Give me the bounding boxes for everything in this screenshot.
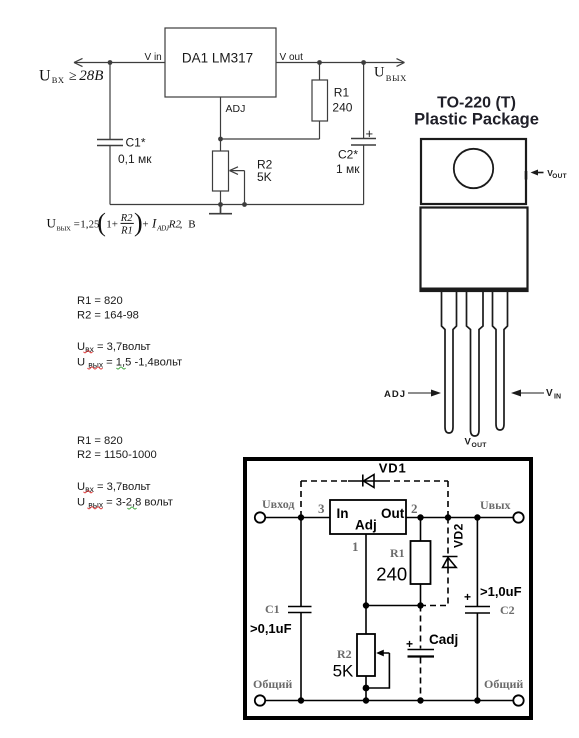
svg-text:C2: C2 (500, 603, 515, 617)
squiggle red vx1 (84, 351, 93, 353)
node dot out2 (361, 60, 366, 65)
label R2 bottom (337, 647, 352, 661)
svg-text:R1: R1 (334, 86, 350, 100)
svg-text:In: In (337, 506, 349, 521)
svg-text:,: , (180, 219, 183, 231)
junction rail1 (298, 697, 304, 703)
label C2* (338, 148, 358, 162)
svg-text:TO-220 (T): TO-220 (T) (437, 95, 516, 112)
wire (365, 676, 367, 701)
svg-text:ВЫХ: ВЫХ (56, 226, 71, 233)
wire (109, 146, 111, 205)
label Cadj (429, 632, 458, 647)
wire dashed vd1 left (300, 481, 302, 518)
svg-text:Uвх = 3,7вольт: Uвх = 3,7вольт (77, 481, 151, 494)
wire (109, 63, 111, 140)
svg-text:DA1 LM317: DA1 LM317 (182, 51, 253, 66)
squiggle green 15 (117, 367, 126, 369)
resistor R1 (411, 541, 431, 584)
svg-text:IN: IN (554, 394, 561, 401)
svg-text:ВЫХ: ВЫХ (386, 73, 407, 83)
capacitor C1 (288, 607, 312, 613)
svg-text:R1: R1 (120, 226, 133, 237)
wire (221, 138, 320, 140)
label Plastic Package (414, 111, 539, 129)
op-amp U1 (165, 28, 276, 97)
junction rail3 (417, 697, 423, 703)
svg-text:=: = (74, 219, 80, 231)
ground (209, 205, 232, 214)
svg-text:1,: 1, (80, 219, 89, 231)
ground rail (266, 700, 514, 702)
label Adj (355, 518, 377, 533)
wire (266, 517, 331, 519)
label V in (145, 52, 162, 63)
svg-text:ADJ: ADJ (384, 389, 406, 400)
svg-text:>0,1uF: >0,1uF (250, 621, 292, 636)
wire (220, 97, 222, 151)
junction wiper (363, 685, 370, 692)
label 240 (332, 101, 352, 115)
wire (74, 62, 165, 64)
svg-text:ADJ: ADJ (226, 103, 246, 115)
node dot adj (218, 137, 223, 142)
ground terminal right (513, 695, 523, 705)
svg-text:R2: R2 (337, 647, 352, 661)
resistor R1 (312, 80, 328, 121)
svg-text:5K: 5K (333, 662, 354, 681)
TO220 body bottom band (421, 288, 528, 292)
label Uvyh (480, 498, 511, 512)
svg-text:R1 = 820: R1 = 820 (77, 435, 123, 447)
label In (337, 506, 349, 521)
svg-text:R1: R1 (390, 546, 405, 560)
wire dashed vd2 bottom (423, 568, 448, 606)
junction in (298, 514, 304, 520)
label R2 (257, 158, 273, 172)
label Uvyx block1 (77, 357, 182, 370)
svg-text:R1 = 820: R1 = 820 (77, 295, 123, 307)
svg-text:240: 240 (332, 101, 352, 115)
svg-text:В: В (188, 219, 195, 231)
wire (300, 613, 302, 701)
svg-text:OUT: OUT (472, 442, 488, 449)
node dot rail2 (242, 202, 247, 207)
junction out3 (474, 514, 480, 520)
svg-text:0,1 мк: 0,1 мк (118, 152, 152, 166)
TO220 pin1 (442, 292, 457, 433)
wire (319, 121, 321, 139)
label Uvx block1 (77, 341, 151, 354)
label TO-220 (T) (437, 95, 516, 112)
label Uvhod (262, 497, 294, 511)
svg-text:U: U (374, 65, 385, 81)
svg-text:U вых = 3-2,8 вольт: U вых = 3-2,8 вольт (77, 497, 173, 510)
label pin 3 (318, 501, 325, 516)
label Obshiy left (253, 677, 292, 691)
wire c1 (300, 518, 302, 607)
squiggle red vx2 (84, 491, 93, 493)
fraction bar (121, 222, 134, 224)
svg-text:C2*: C2* (338, 148, 358, 162)
label C2 bottom (500, 603, 515, 617)
V_IN arrow (511, 390, 544, 397)
frame (245, 459, 531, 718)
svg-text:OUT: OUT (552, 173, 567, 180)
wire (230, 171, 245, 205)
diode VD2 (443, 557, 458, 568)
svg-text:Общий: Общий (484, 677, 523, 691)
svg-text:R2 = 1150-1000: R2 = 1150-1000 (77, 449, 157, 461)
node B (230, 167, 239, 175)
junction rail2 (363, 697, 369, 703)
svg-text:Uвых: Uвых (480, 498, 511, 512)
wire (276, 62, 404, 64)
wire dashed vd1 top right (384, 480, 448, 482)
diode VD1 (348, 475, 384, 488)
wire (110, 204, 364, 206)
junction adj1 (363, 602, 369, 608)
svg-text:Cadj: Cadj (429, 632, 458, 647)
wire (366, 605, 421, 607)
svg-text:1 мк: 1 мк (336, 162, 360, 176)
svg-text:Adj: Adj (355, 518, 377, 533)
TO220 pin2 (467, 292, 484, 436)
wire (319, 63, 321, 81)
svg-text:VD1: VD1 (379, 461, 407, 476)
label 0,1 mk (118, 152, 152, 166)
svg-text:V: V (546, 388, 553, 399)
node dot input (108, 60, 113, 65)
svg-text:+: + (142, 219, 148, 231)
svg-text:≥: ≥ (69, 69, 77, 84)
output terminal (513, 512, 523, 522)
svg-text:): ) (134, 208, 143, 237)
svg-text:Общий: Общий (253, 677, 292, 691)
label V out (280, 52, 304, 63)
label V_IN (546, 388, 561, 401)
svg-text:(: ( (97, 208, 106, 237)
label DA1 LM317 (182, 51, 253, 66)
wire dashed vd1 right (447, 481, 449, 518)
wire (420, 584, 422, 606)
resistor R2 (357, 634, 375, 676)
squiggle red vyx2 (88, 507, 103, 509)
label plus C2 bottom (464, 590, 471, 604)
svg-text:28В: 28В (79, 68, 103, 84)
label Out (381, 506, 405, 521)
input terminal (255, 512, 265, 522)
svg-text:+: + (406, 637, 413, 651)
V_OUT top arrow (525, 170, 544, 180)
svg-text:240: 240 (376, 564, 407, 585)
label R2 = 164-98 (77, 310, 139, 322)
svg-text:C1*: C1* (126, 136, 146, 150)
label 240 bottom (376, 564, 407, 585)
label R2 = 1150-1000 (77, 449, 157, 461)
label pin 2 (411, 501, 418, 516)
svg-text:U: U (47, 216, 57, 231)
svg-text:1+: 1+ (106, 219, 118, 231)
wire (220, 191, 222, 205)
TO220 hole (454, 149, 493, 188)
wire (476, 614, 478, 701)
svg-text:C1: C1 (265, 602, 280, 616)
R2 wiper (366, 650, 389, 688)
ADJ arrow (408, 390, 441, 397)
label ADJ pin (384, 389, 406, 400)
squiggle green 28 (128, 507, 137, 509)
label U_BX >= 28V (39, 68, 103, 86)
svg-text:V: V (465, 437, 472, 448)
node dot rail1 (218, 202, 223, 207)
svg-text:R2: R2 (120, 213, 133, 224)
node A (74, 58, 83, 66)
capacitor C2 (465, 607, 490, 614)
label plus Cadj (406, 637, 413, 651)
regulator U1 (330, 500, 406, 534)
wire c2 (476, 518, 478, 607)
svg-text:Uвход: Uвход (262, 497, 294, 511)
wire (406, 517, 514, 519)
node dot out1 (317, 60, 322, 65)
formula (47, 208, 196, 237)
junction out1 (417, 514, 423, 520)
label C1* (126, 136, 146, 150)
wire dashed cadj top (420, 606, 422, 649)
TO220 body (421, 208, 528, 292)
svg-text:3: 3 (318, 501, 325, 516)
svg-text:5K: 5K (257, 170, 272, 184)
label V_OUT top (547, 168, 567, 180)
node C (397, 59, 405, 67)
label Uvyx block2 (77, 497, 173, 510)
resistor R2 (213, 151, 229, 191)
svg-text:+: + (366, 126, 374, 141)
label Obshiy right (484, 677, 523, 691)
svg-text:Out: Out (381, 506, 405, 521)
svg-text:ВХ: ВХ (52, 75, 65, 85)
label R1 (334, 86, 350, 100)
wire adj (365, 534, 367, 634)
junction adj2 (417, 602, 423, 608)
svg-text:U: U (39, 68, 51, 85)
svg-text:Plastic Package: Plastic Package (414, 111, 539, 129)
svg-text:I: I (151, 216, 157, 231)
label R1 = 820 (block2) (77, 435, 123, 447)
label C1 bottom (265, 602, 280, 616)
wire (420, 518, 422, 542)
svg-text:2: 2 (411, 501, 418, 516)
label Uvx block2 (77, 481, 151, 494)
svg-text:VD2: VD2 (452, 523, 466, 548)
svg-text:R2 = 164-98: R2 = 164-98 (77, 310, 139, 322)
wire (363, 146, 365, 205)
label pin 1 (352, 539, 359, 554)
TO220 pin3 (493, 292, 508, 430)
label ADJ (226, 103, 246, 115)
label 5K (257, 170, 272, 184)
label plus C2 (366, 126, 374, 141)
svg-text:+: + (464, 590, 471, 604)
label 5K bottom (333, 662, 354, 681)
label VD2 (452, 523, 466, 548)
svg-text:1: 1 (352, 539, 359, 554)
capacitor Cadj (408, 650, 435, 657)
svg-text:V in: V in (145, 52, 162, 63)
svg-text:>1,0uF: >1,0uF (480, 584, 522, 599)
label 1 mk (336, 162, 360, 176)
label R1 bottom (390, 546, 405, 560)
label >0,1uF (250, 621, 292, 636)
capacitor C2 (351, 139, 376, 146)
wire (363, 63, 365, 139)
label R1 = 820 (block1) (77, 295, 123, 307)
svg-text:Uвх = 3,7вольт: Uвх = 3,7вольт (77, 341, 151, 354)
ground terminal left (255, 695, 265, 705)
label VD1 (379, 461, 407, 476)
wire dashed cadj bottom (420, 658, 422, 701)
label >1,0uF (480, 584, 522, 599)
capacitor C1 (97, 140, 123, 146)
label U_VYH (374, 65, 407, 84)
wire dashed vd1 top left (301, 480, 348, 482)
squiggle red vyx1 (88, 367, 103, 369)
wire dashed vd2 top (447, 518, 449, 557)
junction rail4 (474, 697, 480, 703)
svg-text:V out: V out (280, 52, 304, 63)
TO220 tab (421, 139, 526, 204)
label V_OUT bottom (465, 437, 488, 449)
junction out2 (445, 514, 451, 520)
